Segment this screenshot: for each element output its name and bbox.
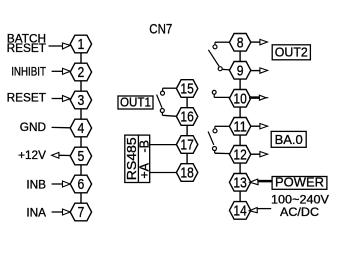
- wire 6-7: [80, 193, 82, 203]
- wire input arrow pin3: [52, 96, 71, 102]
- wire 16-17: [186, 125, 188, 135]
- svg-text:5: 5: [78, 148, 85, 165]
- svg-text:INA: INA: [26, 206, 46, 220]
- terminal 5: [70, 147, 91, 165]
- svg-text:OUT1: OUT1: [120, 95, 151, 109]
- wire 8-9: [239, 51, 241, 61]
- terminal 16: [176, 108, 197, 126]
- svg-text:2: 2: [78, 64, 85, 81]
- output arrow pin11: [250, 124, 268, 129]
- power input arrow pin14: [249, 208, 271, 213]
- terminal 3: [70, 91, 91, 109]
- terminal 7: [70, 203, 91, 221]
- terminal 1: [70, 35, 91, 53]
- terminal 9: [229, 62, 250, 80]
- svg-text:14: 14: [233, 202, 246, 219]
- wire RS485 -B to pin 17: [150, 144, 177, 146]
- wire RS485 +A to pin 18: [150, 172, 177, 174]
- wire input arrow pin2: [52, 68, 71, 74]
- label +12V: [18, 148, 46, 162]
- wire 2-3: [80, 81, 82, 91]
- svg-text:1: 1: [78, 36, 85, 53]
- box OUT1: [118, 95, 153, 109]
- svg-text:RESET: RESET: [7, 41, 46, 55]
- box BA.0: [271, 131, 306, 147]
- RS485 box: [125, 135, 152, 182]
- label 100~240V: [271, 192, 329, 206]
- wire 5-6: [80, 165, 82, 175]
- terminal 8: [229, 34, 250, 52]
- label BATCH RESET: [7, 31, 46, 55]
- common stub pin10: [212, 90, 230, 97]
- terminal 10: [229, 90, 250, 108]
- wire 17-18: [186, 153, 188, 163]
- terminal 18: [176, 164, 197, 182]
- svg-text:-B: -B: [138, 140, 152, 153]
- svg-text:9: 9: [237, 62, 244, 79]
- wire input arrow pin6: [52, 181, 71, 187]
- box OUT2: [272, 45, 310, 60]
- terminal 2: [70, 63, 91, 81]
- svg-text:8: 8: [237, 34, 244, 51]
- terminal 15: [176, 80, 197, 98]
- wire 10-11: [239, 107, 241, 117]
- label INHIBIT: [11, 64, 46, 78]
- wire 1-2: [80, 53, 82, 63]
- svg-text:AC/DC: AC/DC: [280, 205, 319, 219]
- svg-text:12: 12: [233, 146, 246, 163]
- svg-text:7: 7: [78, 204, 85, 221]
- label GND: [20, 120, 46, 134]
- connector title CN7: [149, 22, 172, 38]
- wire pin4: [52, 126, 71, 128]
- terminal 13: [229, 174, 250, 192]
- output arrow pin12: [250, 152, 268, 157]
- wire 13-14: [239, 191, 241, 201]
- wire input arrow pin1: [49, 43, 71, 49]
- wire 3-4: [80, 109, 82, 119]
- output arrow pin9: [250, 68, 268, 73]
- svg-text:6: 6: [78, 176, 85, 193]
- wire 9-10: [239, 79, 241, 89]
- svg-text:16: 16: [180, 109, 193, 126]
- svg-text:17: 17: [180, 137, 193, 154]
- svg-text:GND: GND: [20, 120, 46, 134]
- terminal 4: [70, 119, 91, 137]
- bold output arrow pin10: [249, 95, 268, 100]
- label INA: [26, 206, 46, 220]
- svg-text:15: 15: [180, 81, 193, 98]
- wire input arrow pin7: [52, 209, 71, 215]
- svg-text:INHIBIT: INHIBIT: [11, 64, 46, 78]
- svg-text:RESET: RESET: [7, 91, 46, 105]
- relay contact OUT1 (pins 15-16): [157, 88, 177, 116]
- svg-text:OUT2: OUT2: [275, 45, 308, 60]
- label INB: [26, 177, 46, 191]
- svg-text:INB: INB: [26, 177, 46, 191]
- svg-text:+A: +A: [138, 162, 152, 178]
- wire 4-5: [80, 137, 82, 147]
- svg-text:CN7: CN7: [149, 22, 172, 38]
- wire 12-13: [239, 163, 241, 173]
- label RESET: [7, 91, 46, 105]
- terminal 6: [70, 175, 91, 193]
- svg-text:+12V: +12V: [18, 148, 46, 162]
- svg-text:4: 4: [78, 120, 85, 137]
- wire 11-12: [239, 135, 241, 145]
- svg-text:BA.0: BA.0: [275, 132, 303, 147]
- output arrow pin8: [250, 39, 267, 44]
- svg-text:13: 13: [233, 174, 246, 191]
- relay contact BA.0 (pins 11-12): [208, 126, 230, 153]
- terminal 14: [229, 202, 250, 220]
- power input arrow pin13: [250, 179, 272, 185]
- svg-text:18: 18: [180, 165, 193, 182]
- wire 15-16: [186, 97, 188, 107]
- svg-text:3: 3: [78, 92, 85, 109]
- svg-text:10: 10: [233, 90, 246, 107]
- wire output arrow pin5: [52, 152, 71, 158]
- relay contact OUT2 (pins 8-9): [208, 42, 230, 70]
- svg-text:POWER: POWER: [275, 175, 324, 190]
- box POWER: [272, 175, 327, 190]
- label AC/DC: [280, 205, 319, 219]
- terminal 11: [229, 118, 250, 136]
- terminal 12: [229, 146, 250, 164]
- svg-text:11: 11: [233, 118, 246, 135]
- terminal 17: [176, 136, 197, 154]
